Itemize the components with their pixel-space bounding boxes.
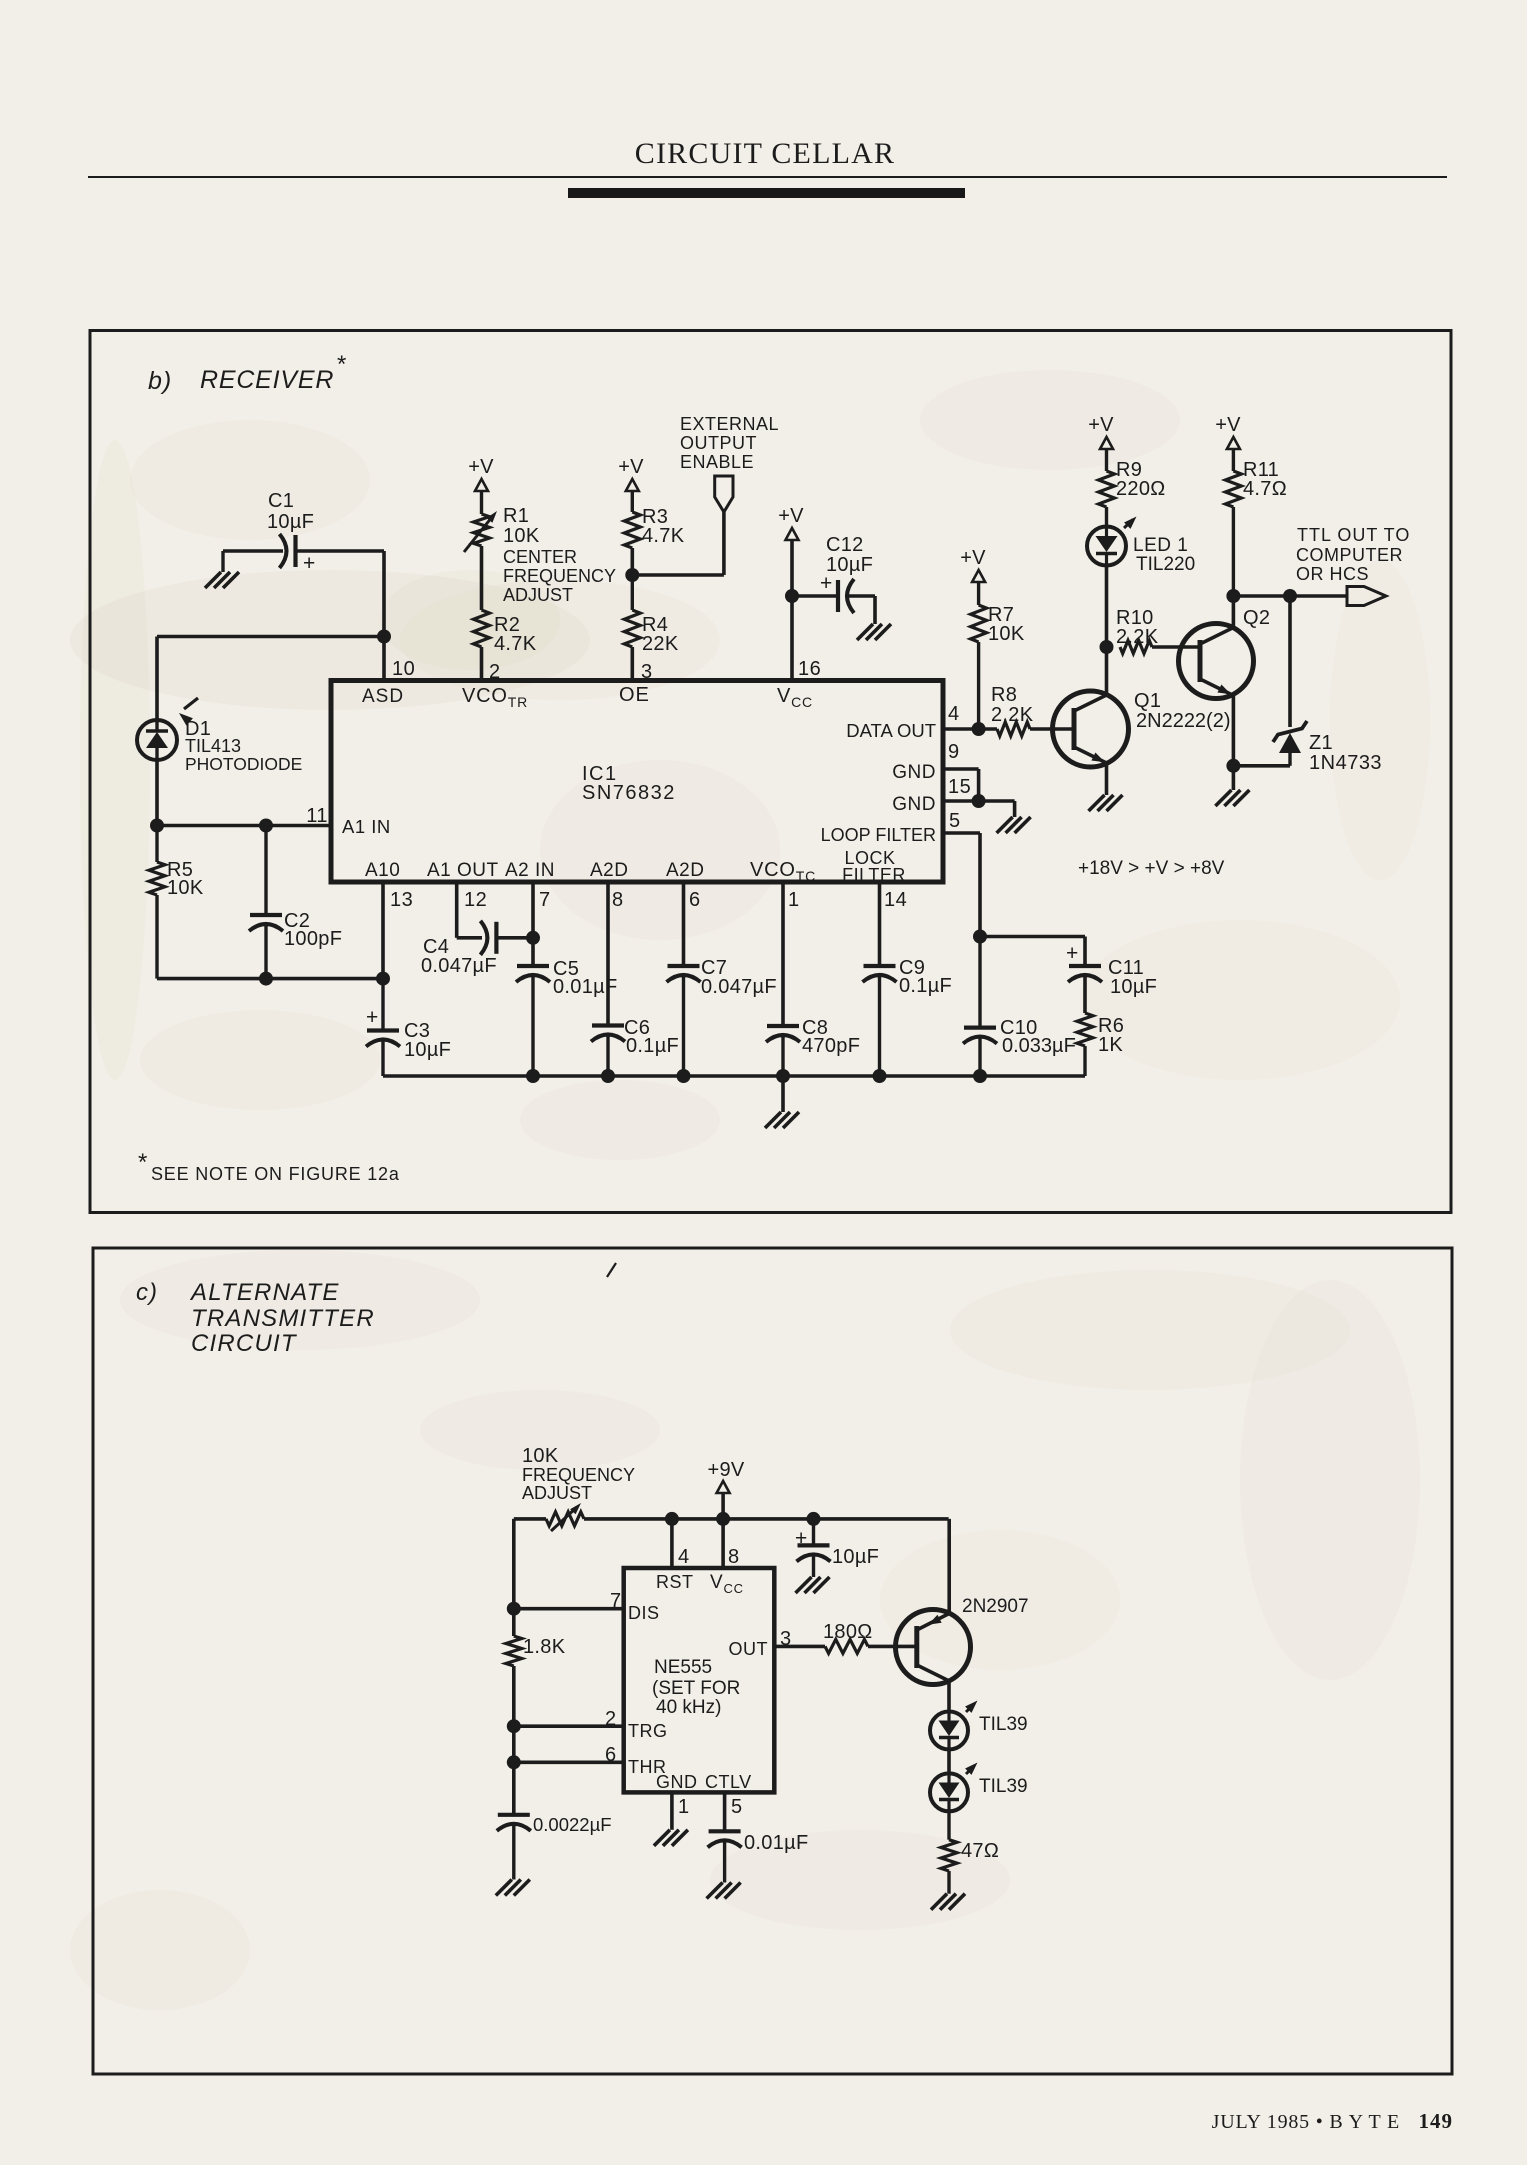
LED TIL39 (second)	[930, 1763, 1028, 1812]
ground (0.01uF)	[707, 1883, 723, 1899]
svg-text:TIL39: TIL39	[979, 1776, 1028, 1797]
wire C1 to node A	[296, 549, 385, 553]
panel b frame	[90, 331, 1451, 1213]
svg-text:OUTPUT: OUTPUT	[680, 433, 757, 453]
svg-text:PHOTODIODE: PHOTODIODE	[185, 754, 302, 774]
svg-text:0.047µF: 0.047µF	[701, 976, 777, 998]
wire 1.8K to TRG/THR	[512, 1666, 516, 1815]
svg-text:DATA OUT: DATA OUT	[846, 720, 936, 741]
wire TRG	[514, 1724, 624, 1728]
resistor R11 4.7ohm	[1225, 449, 1287, 596]
svg-text:10µF: 10µF	[1110, 976, 1157, 998]
resistor R4 22K	[624, 575, 679, 655]
+V supply (R3)	[618, 456, 644, 491]
svg-text:2: 2	[605, 1708, 616, 1730]
svg-text:ENABLE: ENABLE	[680, 452, 754, 472]
resistor R10 2.2K	[1116, 607, 1159, 654]
svg-text:180Ω: 180Ω	[823, 1621, 873, 1643]
svg-text:8: 8	[728, 1546, 739, 1568]
wire pin 7 down	[531, 882, 535, 966]
wire VCC node to pin 16	[790, 596, 794, 681]
wire pin 15 GND	[943, 799, 1015, 803]
wire node A to D1	[157, 635, 384, 639]
svg-text:2.2K: 2.2K	[991, 704, 1034, 726]
svg-text:DIS: DIS	[628, 1603, 660, 1623]
svg-text:7: 7	[610, 1590, 621, 1612]
photodiode D1 TIL413	[137, 698, 302, 774]
svg-text:+9V: +9V	[707, 1459, 744, 1481]
svg-text:22K: 22K	[642, 633, 679, 655]
wire C11 to R6	[1083, 975, 1087, 1013]
svg-text:470pF: 470pF	[802, 1035, 860, 1057]
stray scan mark	[607, 1263, 616, 1277]
ground (C12)	[857, 624, 873, 640]
svg-text:12: 12	[464, 889, 487, 911]
svg-text:14: 14	[884, 889, 907, 911]
wire Q2 collector to R11	[1232, 596, 1236, 628]
wire bus ground stem	[781, 1076, 785, 1112]
svg-text:10µF: 10µF	[832, 1546, 879, 1568]
svg-text:GND: GND	[656, 1772, 698, 1792]
resistor R7 10K	[971, 582, 1025, 729]
svg-text:+V: +V	[468, 456, 494, 478]
svg-text:EXTERNAL: EXTERNAL	[680, 414, 779, 434]
ground (bus)	[765, 1112, 781, 1128]
svg-text:TIL413: TIL413	[185, 736, 241, 756]
wire node to C11 branch	[980, 935, 1085, 939]
resistor R9 220ohm	[1099, 449, 1166, 527]
svg-text:16: 16	[798, 658, 821, 680]
svg-text:VCC: VCC	[777, 685, 813, 710]
svg-text:3: 3	[641, 661, 653, 683]
wire between LEDs	[947, 1750, 951, 1774]
svg-text:R8: R8	[991, 684, 1017, 706]
capacitor 10uF (555)	[795, 1519, 879, 1577]
svg-text:FREQUENCY: FREQUENCY	[522, 1465, 635, 1485]
svg-text:OE: OE	[619, 684, 650, 706]
svg-text:A2D: A2D	[590, 860, 628, 881]
svg-text:*: *	[337, 351, 347, 378]
header CIRCUIT CELLAR	[88, 137, 1447, 198]
node C4/pin7	[526, 931, 540, 945]
capacitor C6 0.1uF	[591, 1017, 679, 1076]
svg-text:FILTER: FILTER	[842, 865, 906, 885]
LED LED1 TIL220	[1087, 517, 1195, 576]
wire pin 6 down	[682, 882, 686, 966]
wire pin 4 DATA OUT	[943, 727, 997, 731]
wire pin 1 GND stub	[670, 1792, 674, 1829]
svg-text:A1 OUT: A1 OUT	[427, 860, 499, 881]
svg-text:1.8K: 1.8K	[523, 1636, 566, 1658]
svg-text:SN76832: SN76832	[582, 782, 676, 804]
panel c frame	[93, 1248, 1452, 2074]
node pin8/rail	[716, 1512, 730, 1526]
wire top rail	[514, 1517, 546, 1521]
wire pin 12 to C4	[455, 882, 459, 938]
capacitor 0.01uF	[708, 1831, 809, 1882]
svg-text:+V: +V	[618, 456, 644, 478]
svg-text:0.1µF: 0.1µF	[626, 1035, 679, 1057]
ground (10uF)	[796, 1577, 812, 1593]
node Q2 emitter / Z1	[1226, 759, 1240, 773]
node C2 bottom	[259, 972, 273, 986]
svg-text:R1: R1	[503, 505, 529, 527]
node C10/bus	[973, 1069, 987, 1083]
wire R2 to pin 2	[480, 647, 484, 681]
transistor Q2 2N2222	[1179, 607, 1271, 699]
svg-text:*: *	[138, 1149, 148, 1176]
ground (47ohm)	[931, 1894, 947, 1910]
footer	[1212, 2109, 1453, 2133]
+V supply (R9)	[1088, 414, 1114, 449]
wire R8 to Q1 base	[1030, 727, 1074, 731]
wire +V to VCC node	[790, 540, 794, 596]
svg-text:NE555: NE555	[654, 1657, 712, 1678]
svg-text:+V: +V	[778, 505, 804, 527]
svg-text:+: +	[1066, 942, 1079, 965]
wire Z1 to Q2 emitter	[1233, 764, 1290, 768]
ground (0.0022uF)	[496, 1880, 512, 1896]
see-note footnote	[138, 1149, 400, 1184]
wire R1 to R2	[480, 546, 484, 610]
svg-text:b): b)	[148, 367, 172, 395]
wire R4 to pin 3	[630, 647, 634, 681]
+V supply (R11)	[1215, 414, 1241, 449]
node A (pin10 junction)	[377, 630, 391, 644]
svg-text:100pF: 100pF	[284, 928, 342, 950]
op-amp U1 : IC1 SN76832 box	[331, 681, 943, 883]
node C6/bus	[601, 1069, 615, 1083]
transistor Q1 2N2222	[1053, 690, 1231, 767]
ground (Q2)	[1215, 790, 1231, 806]
svg-text:ALTERNATE: ALTERNATE	[189, 1279, 340, 1306]
wire node A to pin 10	[382, 637, 386, 682]
svg-text:A2 IN: A2 IN	[505, 860, 555, 881]
+V supply (R1)	[468, 456, 494, 491]
svg-text:2N2222(2): 2N2222(2)	[1136, 710, 1231, 732]
capacitor C1 10uF	[267, 490, 316, 575]
svg-text:CTLV: CTLV	[705, 1772, 752, 1792]
ground (Q1)	[1089, 795, 1105, 811]
svg-text:(SET FOR: (SET FOR	[652, 1678, 740, 1699]
wire Z1 branch	[1288, 596, 1292, 727]
svg-text:10µF: 10µF	[404, 1039, 451, 1061]
capacitor C10 0.033uF	[963, 937, 1076, 1077]
capacitor C7 0.047uF	[667, 957, 777, 1076]
svg-text:6: 6	[689, 889, 701, 911]
+V supply (VCC)	[778, 505, 804, 540]
node C5/bus	[526, 1069, 540, 1083]
svg-text:c): c)	[136, 1279, 158, 1306]
wire OUT pin 3	[774, 1645, 825, 1649]
node pin13 junction	[376, 972, 390, 986]
capacitor C8 470pF	[766, 1017, 860, 1076]
svg-text:10K: 10K	[503, 525, 540, 547]
wire R3 to OE node	[630, 548, 634, 575]
svg-text:+V: +V	[1215, 414, 1241, 436]
potentiometer 10K frequency adjust	[522, 1445, 635, 1531]
TTL out connector	[1347, 587, 1386, 606]
wire C4 to pin7 line	[496, 936, 533, 940]
wire pin 5 LOOP FILTER	[943, 831, 980, 835]
svg-text:+V: +V	[1088, 414, 1114, 436]
svg-text:220Ω: 220Ω	[1116, 478, 1166, 500]
wire THR	[514, 1761, 624, 1765]
node TRG junction	[507, 1719, 521, 1733]
wire +9V to pin 8	[721, 1493, 725, 1568]
node C8/bus	[776, 1069, 790, 1083]
svg-text:47Ω: 47Ω	[961, 1840, 999, 1862]
resistor R5 10K	[149, 826, 204, 979]
svg-text:JULY 1985 • B Y T E: JULY 1985 • B Y T E	[1212, 2111, 1400, 2133]
svg-text:CIRCUIT: CIRCUIT	[191, 1330, 298, 1357]
node R10 junction	[1100, 640, 1114, 654]
node TTL out (collector)	[1226, 589, 1240, 603]
external output enable connector	[680, 414, 779, 512]
wire TTL out	[1233, 594, 1347, 598]
wire C12 to ground	[848, 594, 875, 598]
svg-text:1: 1	[678, 1796, 689, 1818]
svg-text:10µF: 10µF	[826, 554, 873, 576]
wire Q2 emitter down	[1232, 695, 1236, 790]
svg-text:2: 2	[489, 661, 501, 683]
svg-text:CENTER: CENTER	[503, 547, 577, 567]
svg-text:TRANSMITTER: TRANSMITTER	[191, 1305, 375, 1332]
svg-text:4: 4	[678, 1546, 689, 1568]
svg-text:TRG: TRG	[628, 1721, 668, 1741]
svg-text:1: 1	[788, 889, 800, 911]
svg-text:5: 5	[731, 1796, 742, 1818]
svg-text:4: 4	[948, 703, 960, 725]
svg-text:149: 149	[1419, 2109, 1454, 2133]
node OE junction	[625, 568, 639, 582]
svg-text:6: 6	[605, 1744, 616, 1766]
svg-text:FREQUENCY: FREQUENCY	[503, 566, 616, 586]
resistor 1.8K	[506, 1636, 566, 1666]
node 10uF/rail	[807, 1512, 821, 1526]
svg-text:9: 9	[948, 741, 960, 763]
svg-text:RECEIVER: RECEIVER	[200, 366, 334, 394]
svg-text:7: 7	[539, 889, 551, 911]
wire left column	[512, 1519, 516, 1636]
wire pin 13 down	[381, 882, 385, 979]
svg-text:+: +	[795, 1527, 808, 1550]
svg-text:Z1: Z1	[1309, 732, 1333, 754]
svg-text:+: +	[303, 552, 316, 575]
svg-text:TIL220: TIL220	[1136, 554, 1195, 575]
svg-text:2N2907: 2N2907	[962, 1596, 1029, 1617]
wire pin 1 down	[781, 882, 785, 1026]
svg-text:VCOTC: VCOTC	[750, 859, 816, 884]
+9V supply	[707, 1459, 744, 1493]
node pin4/rail	[665, 1512, 679, 1526]
resistor 47ohm	[941, 1811, 999, 1893]
node C2 top	[259, 819, 273, 833]
svg-text:ADJUST: ADJUST	[503, 585, 573, 605]
svg-text:GND: GND	[892, 762, 936, 783]
page background blotches (scan mottling)	[70, 570, 590, 710]
wire R10 to Q2 base	[1152, 645, 1200, 649]
svg-text:CIRCUIT CELLAR: CIRCUIT CELLAR	[635, 137, 895, 170]
wire pin 11	[157, 824, 331, 828]
wire 2N2907 collector down	[947, 1681, 951, 1712]
svg-text:0.0022µF: 0.0022µF	[533, 1814, 612, 1835]
wire Q1 collector to R10 node	[1105, 647, 1109, 696]
potentiometer R1 10K center frequency adjust	[464, 491, 616, 605]
wire LED1 to R10 node	[1105, 566, 1109, 648]
wire ground bus	[383, 1074, 1085, 1078]
svg-text:+18V > +V > +8V: +18V > +V > +8V	[1078, 858, 1225, 879]
svg-text:15: 15	[948, 776, 971, 798]
svg-text:1N4733: 1N4733	[1309, 752, 1382, 774]
svg-text:VCC: VCC	[710, 1572, 744, 1596]
svg-text:10K: 10K	[167, 877, 204, 899]
svg-text:C12: C12	[826, 534, 864, 556]
node C7/bus	[677, 1069, 691, 1083]
svg-text:5: 5	[949, 810, 961, 832]
svg-text:A2D: A2D	[666, 860, 704, 881]
wire 180ohm to Q base	[868, 1645, 917, 1649]
node R7/R8 junction	[972, 722, 986, 736]
wire connector to OE node	[722, 512, 726, 575]
capacitor 0.0022uF	[497, 1814, 612, 1880]
svg-text:8: 8	[612, 889, 624, 911]
capacitor C11 10uF	[1066, 942, 1157, 998]
panel b title	[148, 351, 347, 395]
svg-text:Q1: Q1	[1134, 690, 1161, 712]
wire VCC node to C12	[792, 594, 838, 598]
svg-text:+: +	[366, 1006, 379, 1029]
svg-text:4.7K: 4.7K	[494, 633, 537, 655]
zener diode Z1 1N4733	[1273, 721, 1382, 774]
capacitor C9 0.1uF	[863, 957, 953, 1076]
svg-text:0.1µF: 0.1µF	[899, 975, 952, 997]
ground (pins 9/15)	[997, 817, 1013, 833]
svg-text:4.7K: 4.7K	[642, 525, 685, 547]
node Z1 top	[1283, 589, 1297, 603]
svg-text:+V: +V	[960, 547, 986, 569]
svg-text:LOOP FILTER: LOOP FILTER	[821, 825, 936, 845]
ground (555 pin1)	[654, 1830, 670, 1846]
LED TIL39 (first)	[930, 1701, 1028, 1750]
+V supply (R7)	[960, 547, 986, 582]
TTL out label	[1296, 525, 1410, 584]
node GND pins junction	[972, 794, 986, 808]
capacitor C12 10uF	[820, 534, 873, 613]
resistor R3 4.7K	[624, 491, 684, 548]
panel c title	[136, 1279, 375, 1357]
svg-text:SEE NOTE ON FIGURE 12a: SEE NOTE ON FIGURE 12a	[151, 1164, 400, 1184]
svg-text:4.7Ω: 4.7Ω	[1243, 478, 1287, 500]
node pin11 left	[150, 819, 164, 833]
wire D1 to pin 11 node	[155, 760, 159, 826]
capacitor C4 0.047uF	[421, 921, 497, 977]
transistor 2N2907	[896, 1596, 1029, 1685]
pin name LOCK FILTER	[842, 848, 906, 885]
wire ground to C1	[223, 549, 283, 553]
svg-text:OR HCS: OR HCS	[1296, 564, 1369, 584]
svg-text:LED 1: LED 1	[1133, 535, 1188, 556]
resistor R6 1K	[1077, 1013, 1124, 1076]
svg-text:COMPUTER: COMPUTER	[1296, 545, 1403, 565]
svg-text:A10: A10	[365, 860, 400, 881]
capacitor C5 0.01uF	[516, 958, 617, 1076]
wire pin 4 RST	[670, 1519, 674, 1568]
svg-text:0.01µF: 0.01µF	[744, 1832, 808, 1854]
svg-text:10K: 10K	[988, 623, 1025, 645]
capacitor C3 10uF	[366, 979, 451, 1076]
svg-text:Q2: Q2	[1243, 607, 1270, 629]
svg-text:0.047µF: 0.047µF	[421, 955, 497, 977]
resistor R8 2.2K	[991, 684, 1034, 736]
svg-text:10K: 10K	[522, 1445, 559, 1467]
wire pin 5 CTLV stub	[723, 1792, 727, 1831]
timer NE555 box	[624, 1568, 775, 1792]
svg-text:GND: GND	[892, 794, 936, 815]
svg-text:0.033µF: 0.033µF	[1002, 1035, 1076, 1057]
wire rail to 2N2907 emitter	[947, 1519, 951, 1614]
resistor R2 4.7K	[474, 610, 537, 655]
svg-text:+: +	[820, 572, 833, 595]
svg-text:10: 10	[392, 658, 415, 680]
wire pin 14 down	[878, 882, 882, 966]
svg-text:OUT: OUT	[729, 1639, 769, 1659]
capacitor C2 100pF	[249, 826, 342, 979]
svg-text:A1 IN: A1 IN	[342, 816, 391, 837]
node VCC junction	[785, 589, 799, 603]
wire DIS	[514, 1607, 624, 1611]
wire pin 9 GND	[943, 767, 979, 771]
svg-text:2.2K: 2.2K	[1116, 626, 1159, 648]
svg-text:40 kHz): 40 kHz)	[656, 1697, 721, 1718]
node loop filter junction	[973, 930, 987, 944]
svg-text:TTL OUT TO: TTL OUT TO	[1297, 525, 1410, 545]
ground (C1)	[205, 551, 239, 588]
resistor 180ohm	[823, 1621, 873, 1653]
svg-text:13: 13	[390, 889, 413, 911]
node DIS junction	[507, 1602, 521, 1616]
svg-text:10µF: 10µF	[267, 511, 314, 533]
node THR junction	[507, 1755, 521, 1769]
wire Q1 emitter to ground	[1105, 763, 1109, 795]
svg-text:RST: RST	[656, 1572, 694, 1592]
svg-text:C1: C1	[268, 490, 294, 512]
node C9/bus	[873, 1069, 887, 1083]
svg-text:ADJUST: ADJUST	[522, 1483, 592, 1503]
wire pin 8 down	[606, 882, 610, 1026]
svg-text:TIL39: TIL39	[979, 1714, 1028, 1735]
svg-text:1K: 1K	[1098, 1034, 1123, 1056]
wire bottom-left bus	[157, 977, 383, 981]
svg-text:ASD: ASD	[362, 686, 404, 707]
